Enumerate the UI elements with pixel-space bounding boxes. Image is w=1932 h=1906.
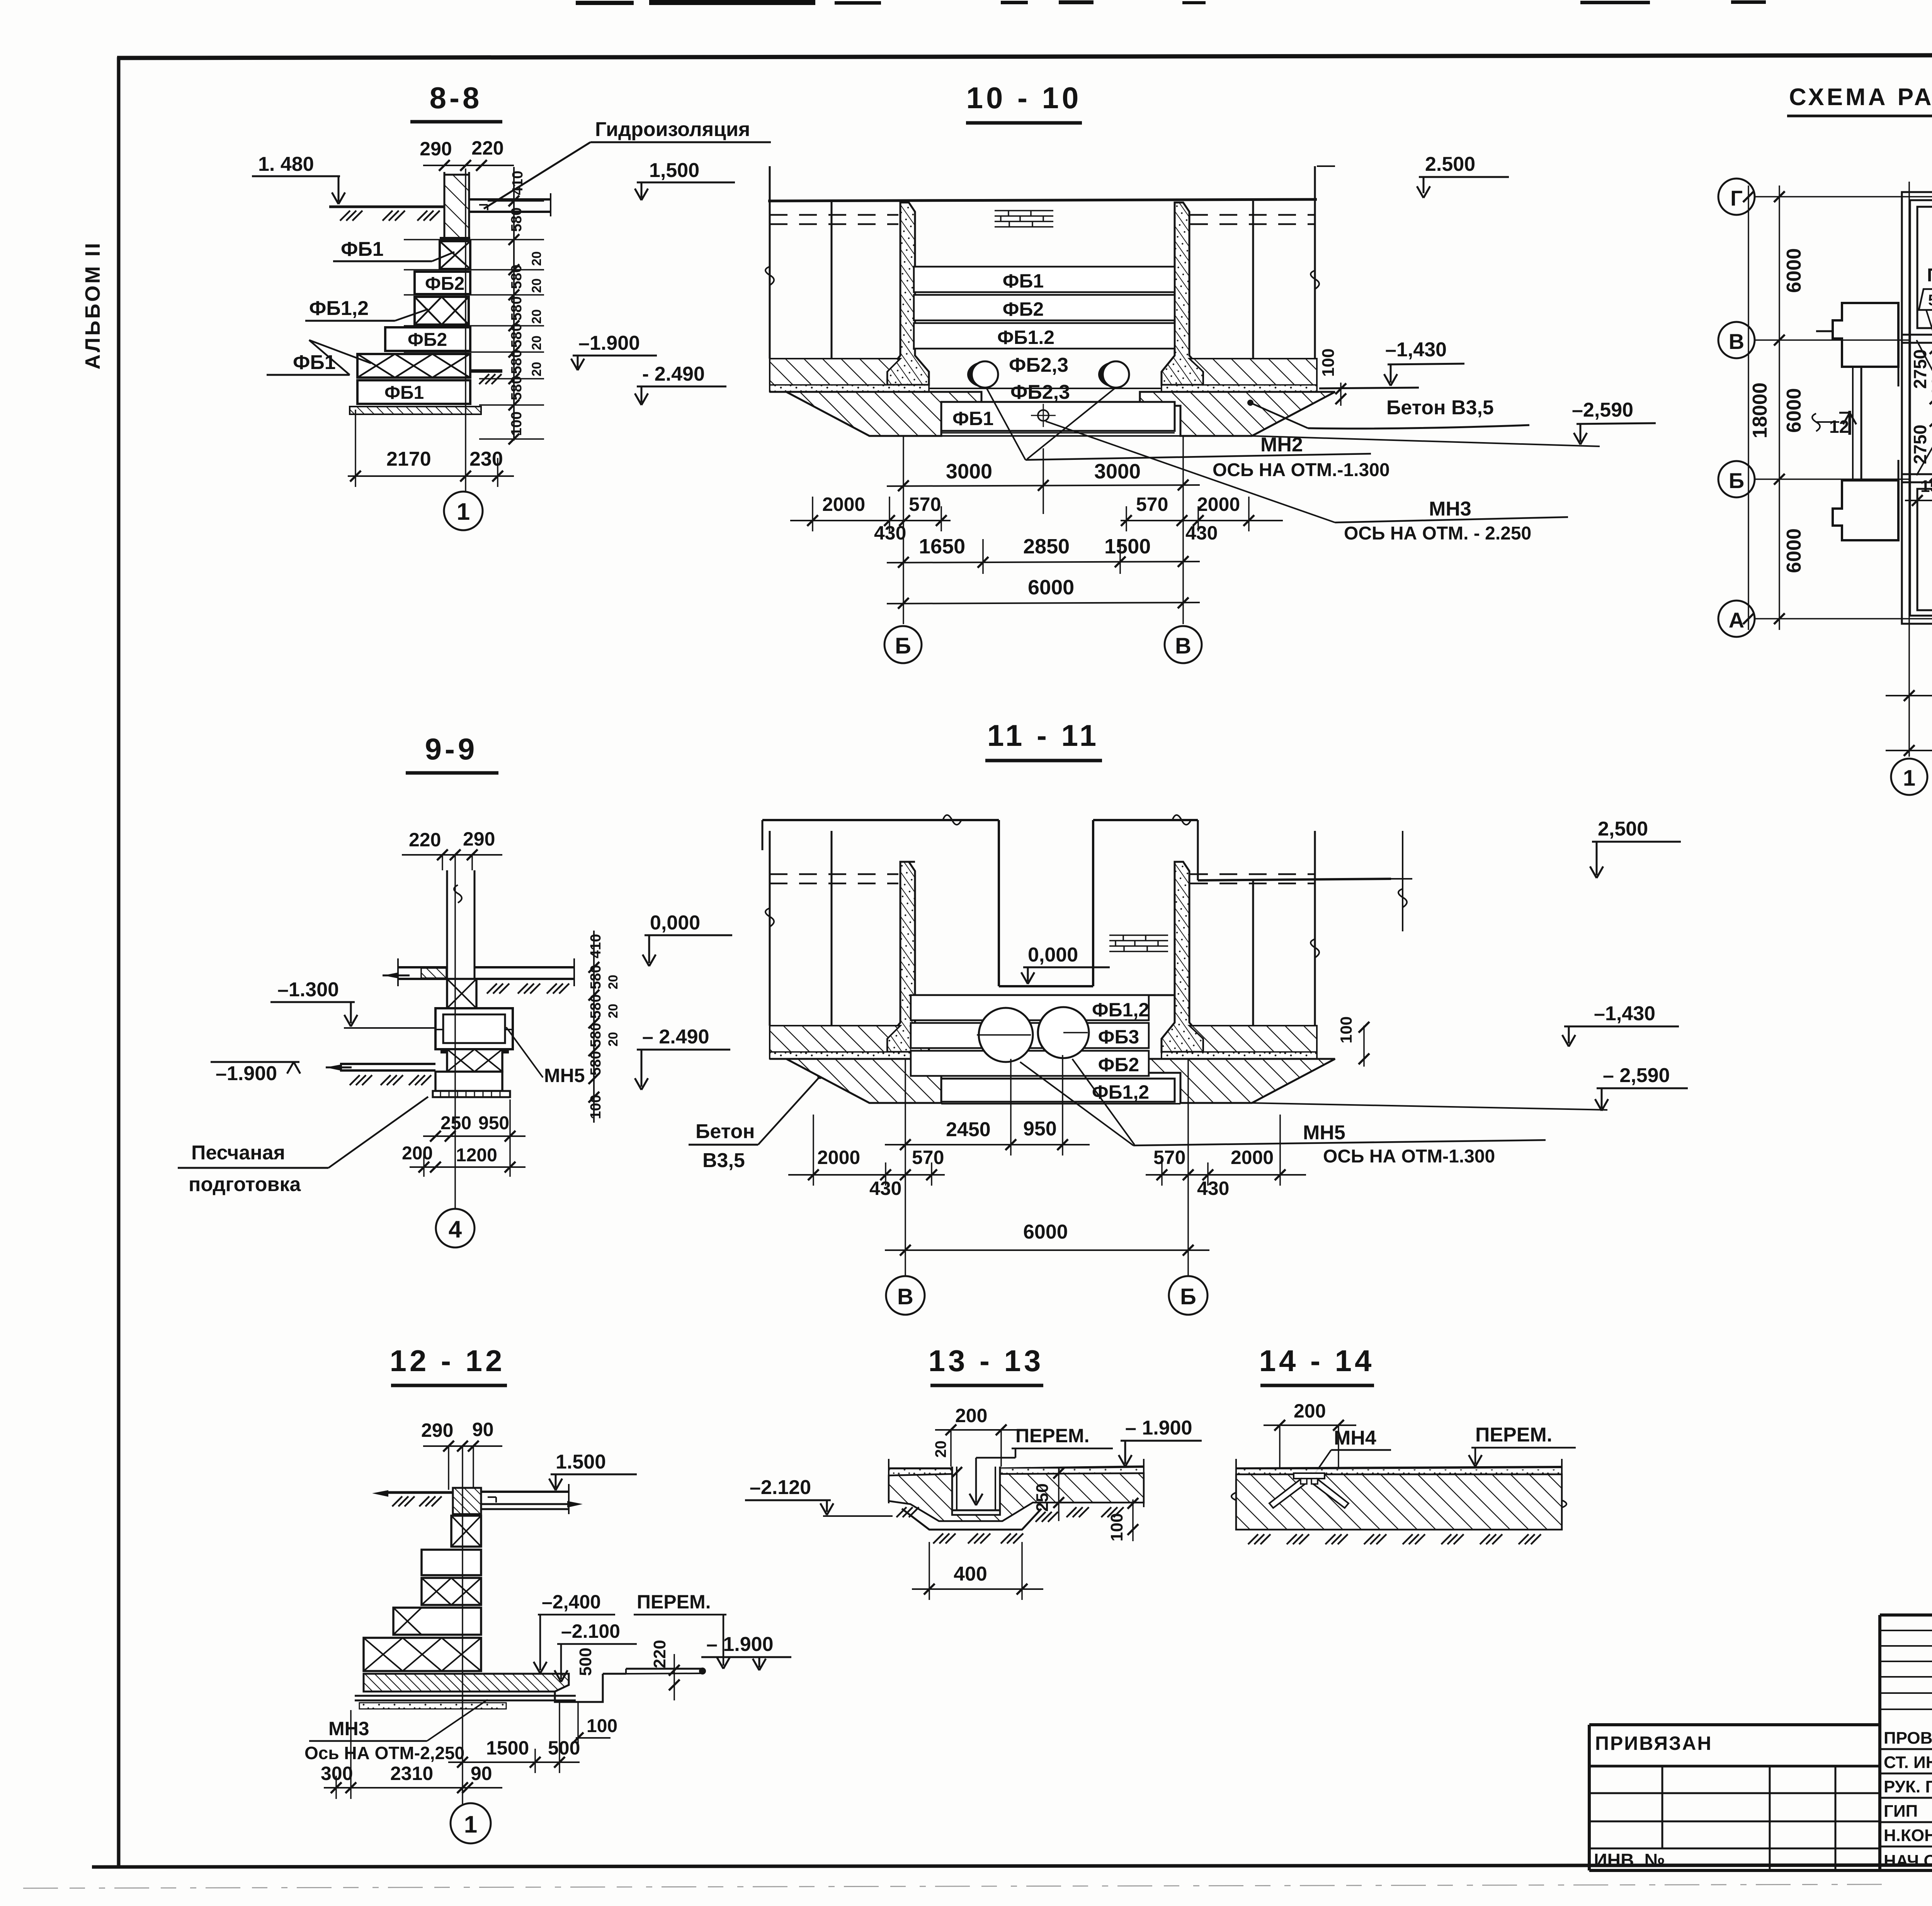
right floor slab xyxy=(474,966,574,968)
wall break mark right xyxy=(1311,271,1319,289)
axis extension lines xyxy=(903,437,904,624)
axis extensions 11-11 xyxy=(905,1059,906,1276)
row FB2,3 upper xyxy=(929,388,1162,389)
right foundation trapezoid xyxy=(1140,392,1335,436)
svg-text:Г: Г xyxy=(1730,186,1743,210)
wall column xyxy=(446,870,448,979)
svg-text:100: 100 xyxy=(1319,349,1338,377)
svg-text:580: 580 xyxy=(588,1023,604,1047)
right outer wall edge xyxy=(1314,166,1316,359)
svg-text:2,500: 2,500 xyxy=(1598,818,1648,840)
svg-text:Н.КОНТР.: Н.КОНТР. xyxy=(1884,1826,1932,1845)
axis circle 1 (12-12) xyxy=(451,1803,491,1843)
leader from Гидроизоляция to wall xyxy=(484,142,590,209)
axis column lines xyxy=(1909,182,1932,757)
left retaining structure lower xyxy=(1833,480,1898,540)
axis circle B 11-11 xyxy=(1169,1276,1207,1315)
wall block hatched xyxy=(453,1488,481,1514)
block FB1,2 row3 (X) xyxy=(415,297,469,325)
right ground band 11-11 xyxy=(1162,1026,1317,1058)
svg-text:ФБ1,2: ФБ1,2 xyxy=(1092,1081,1149,1103)
X blocks row under collar xyxy=(447,1049,502,1072)
svg-text:–1,430: –1,430 xyxy=(1385,339,1447,361)
svg-text:200: 200 xyxy=(955,1405,987,1426)
section mark 12 left xyxy=(1849,411,1851,435)
dashed slab joint left xyxy=(770,214,898,216)
svg-text:ФБ2: ФБ2 xyxy=(1003,298,1044,320)
svg-text:–1.900: –1.900 xyxy=(216,1062,277,1085)
left outer wall edge xyxy=(769,166,771,359)
svg-text:–2,590: –2,590 xyxy=(1572,399,1633,421)
svg-text:2310: 2310 xyxy=(390,1763,433,1784)
svg-text:– 1.900: – 1.900 xyxy=(706,1633,774,1656)
interior wall row V xyxy=(1902,334,1932,336)
canal taper from pit xyxy=(1917,340,1932,399)
thin lines below slab xyxy=(355,1695,576,1697)
axis circle A xyxy=(1718,601,1755,637)
left foundation trapezoid xyxy=(770,392,981,436)
svg-text:20: 20 xyxy=(606,1032,621,1047)
svg-text:100: 100 xyxy=(588,1095,604,1119)
small ground mark right of axis xyxy=(470,369,502,373)
top panel 1 xyxy=(1917,207,1932,328)
svg-text:1: 1 xyxy=(464,1811,477,1838)
svg-text:ОСЬ НА ОТМ.-1.300: ОСЬ НА ОТМ.-1.300 xyxy=(1213,460,1390,480)
left wall inner vertical xyxy=(831,201,833,359)
axis circle G xyxy=(1718,179,1755,215)
vertical dim chain right 9-9 xyxy=(593,931,595,1123)
svg-text:14 - 14: 14 - 14 xyxy=(1259,1344,1375,1378)
svg-text:ФБ1,2: ФБ1,2 xyxy=(309,297,369,320)
svg-text:90: 90 xyxy=(471,1763,492,1784)
wall column hatched xyxy=(444,175,469,240)
svg-text:ФБ2,3: ФБ2,3 xyxy=(1009,354,1068,376)
svg-text:Гидроизоляция: Гидроизоляция xyxy=(595,118,750,141)
svg-text:ФБ1: ФБ1 xyxy=(952,408,993,429)
svg-text:950: 950 xyxy=(478,1113,509,1133)
title block outer border xyxy=(1589,1615,1932,1870)
excavation deeper outline xyxy=(902,1509,1041,1530)
left outer wall verticals xyxy=(769,831,771,1026)
svg-text:СТ. ИНЖ: СТ. ИНЖ xyxy=(1884,1753,1932,1772)
svg-text:ПЕРЕМ.: ПЕРЕМ. xyxy=(1475,1424,1552,1446)
brick symbol 11-11 xyxy=(1109,935,1168,951)
sand preparation strip xyxy=(350,407,481,414)
svg-text:90: 90 xyxy=(472,1419,494,1440)
svg-text:0,000: 0,000 xyxy=(1028,944,1078,966)
svg-text:ОСЬ НА ОТМ. - 2.250: ОСЬ НА ОТМ. - 2.250 xyxy=(1344,523,1531,544)
X block r3 xyxy=(422,1578,481,1605)
ground surface right segment xyxy=(1000,1467,1144,1469)
svg-text:430: 430 xyxy=(1197,1178,1229,1199)
axis circle B(Б) xyxy=(884,626,922,663)
svg-text:290: 290 xyxy=(421,1419,453,1441)
pit floor line xyxy=(915,994,1175,996)
svg-text:ФБ1: ФБ1 xyxy=(341,238,384,260)
svg-text:6000: 6000 xyxy=(1028,576,1074,599)
svg-text:580: 580 xyxy=(509,350,525,374)
svg-text:2000: 2000 xyxy=(1197,494,1240,515)
svg-text:570: 570 xyxy=(1136,494,1168,515)
svg-text:ФБ3: ФБ3 xyxy=(1098,1026,1139,1048)
axis circle V 11-11 xyxy=(886,1276,925,1315)
svg-text:Приямок: Приямок xyxy=(1927,265,1932,286)
block r4 X left xyxy=(393,1608,481,1635)
bottom panel 1 xyxy=(1917,489,1932,610)
interior wall row B xyxy=(1902,473,1932,475)
right step detail xyxy=(555,1674,603,1702)
svg-text:290: 290 xyxy=(420,138,452,160)
svg-text:ФБ2: ФБ2 xyxy=(408,330,447,350)
svg-text:20: 20 xyxy=(529,335,544,350)
axis circle B xyxy=(1718,461,1755,497)
svg-text:А: А xyxy=(1729,608,1744,632)
MN4 anchor symbol xyxy=(1269,1473,1349,1508)
svg-text:500: 500 xyxy=(548,1737,580,1759)
svg-text:10 - 10: 10 - 10 xyxy=(966,81,1082,115)
svg-text:410: 410 xyxy=(588,934,604,958)
svg-text:580: 580 xyxy=(588,1051,604,1076)
svg-text:2850: 2850 xyxy=(1023,535,1070,558)
svg-text:ГИП: ГИП xyxy=(1884,1802,1918,1821)
bottom scan smudge xyxy=(23,1884,1882,1888)
block FB2 row4 xyxy=(385,327,470,351)
svg-text:МН3: МН3 xyxy=(1429,498,1471,520)
svg-text:20: 20 xyxy=(932,1441,949,1458)
hatched ground 13-13 xyxy=(889,1473,1144,1521)
block FB1 bottom xyxy=(357,380,470,404)
block FB1 top (X) xyxy=(440,241,470,269)
svg-text:570: 570 xyxy=(912,1147,944,1168)
ground line left of wall xyxy=(329,206,444,208)
svg-text:ОСЬ НА ОТМ-1.300: ОСЬ НА ОТМ-1.300 xyxy=(1323,1146,1495,1167)
svg-text:Бетон: Бетон xyxy=(696,1120,755,1143)
floor slab right of wall xyxy=(469,198,551,201)
right wall verticals xyxy=(1252,880,1254,1026)
ceiling slab line xyxy=(768,199,1317,201)
svg-text:1650: 1650 xyxy=(919,535,965,558)
MN3 center point xyxy=(1038,410,1049,421)
ground surface 14-14 xyxy=(1236,1467,1562,1469)
svg-text:- 2.490: - 2.490 xyxy=(642,363,705,385)
svg-text:Песчаная: Песчаная xyxy=(191,1142,285,1164)
top cut line left xyxy=(762,819,999,821)
block FB2 row2 xyxy=(415,272,470,294)
block r2 xyxy=(422,1550,481,1575)
svg-text:ФБ1.2: ФБ1.2 xyxy=(997,327,1054,348)
svg-text:2000: 2000 xyxy=(822,494,865,515)
building outer wall xyxy=(1902,192,1932,624)
right ground band hatched xyxy=(1162,359,1317,391)
left thin wall panel xyxy=(887,203,929,385)
svg-text:ПРИВЯЗАН: ПРИВЯЗАН xyxy=(1595,1732,1713,1754)
svg-text:СХЕМА РАСПОЛОЖЕНИЯ КАНАЛА И: СХЕМА РАСПОЛОЖЕНИЯ КАНАЛА И ПРИЯМКА. xyxy=(1789,84,1932,111)
svg-text:МН5: МН5 xyxy=(1303,1121,1345,1144)
wall break mark left xyxy=(765,267,774,285)
block row5 X wide xyxy=(357,354,470,378)
svg-text:20: 20 xyxy=(529,309,544,324)
svg-text:580: 580 xyxy=(509,323,525,348)
pipe MN2 left xyxy=(972,361,998,388)
svg-text:430: 430 xyxy=(1185,522,1218,544)
svg-text:2750: 2750 xyxy=(1910,349,1930,389)
svg-text:220: 220 xyxy=(650,1640,669,1668)
block stack rect xyxy=(914,267,1175,292)
left lower table columns xyxy=(1662,1766,1835,1870)
svg-text:250: 250 xyxy=(1033,1483,1052,1511)
svg-text:18000: 18000 xyxy=(1749,383,1771,439)
svg-text:ПРОВЕР.: ПРОВЕР. xyxy=(1884,1729,1932,1748)
dashed joint right xyxy=(1190,873,1315,875)
svg-text:2000: 2000 xyxy=(817,1147,860,1168)
excavation bottom 11-11 xyxy=(941,1103,1180,1104)
wall break mark xyxy=(1812,414,1820,431)
svg-text:В: В xyxy=(1729,329,1744,354)
svg-text:20: 20 xyxy=(529,278,544,293)
svg-text:Б: Б xyxy=(895,633,911,659)
svg-text:20: 20 xyxy=(529,362,544,376)
svg-text:АЛЬБОМ II: АЛЬБОМ II xyxy=(81,241,104,369)
svg-text:1: 1 xyxy=(1903,766,1915,791)
dashed slab joint right xyxy=(1190,214,1315,216)
svg-text:9-9: 9-9 xyxy=(425,732,478,766)
axis line 12-12 xyxy=(462,1446,463,1804)
svg-text:400: 400 xyxy=(954,1563,987,1585)
svg-text:220: 220 xyxy=(471,137,503,159)
axis line 9-9 xyxy=(454,855,456,1209)
svg-text:НАЧ.ОТД: НАЧ.ОТД xyxy=(1884,1852,1932,1870)
svg-text:580: 580 xyxy=(588,994,604,1019)
scanner edge marks top xyxy=(576,0,1932,21)
svg-text:МН4: МН4 xyxy=(1334,1427,1376,1449)
svg-text:–2,400: –2,400 xyxy=(542,1591,601,1613)
block stack 11-11 xyxy=(911,995,1149,1020)
right wall inner vertical xyxy=(1252,201,1254,359)
left ground band hatched xyxy=(770,359,929,391)
svg-text:1. 480: 1. 480 xyxy=(258,153,314,175)
svg-text:1.500: 1.500 xyxy=(556,1451,606,1473)
svg-text:200: 200 xyxy=(1294,1400,1326,1422)
pit 0.000 walls xyxy=(998,820,1000,986)
svg-text:500: 500 xyxy=(576,1647,595,1676)
svg-text:2.500: 2.500 xyxy=(1425,153,1475,175)
svg-text:–2.100: –2.100 xyxy=(561,1620,620,1642)
svg-text:6000: 6000 xyxy=(1783,528,1805,573)
svg-text:290: 290 xyxy=(463,828,495,850)
svg-text:570: 570 xyxy=(909,494,941,515)
svg-text:20: 20 xyxy=(606,975,621,989)
left ground band 11-11 xyxy=(770,1026,929,1058)
left privyazan strip xyxy=(1589,1765,1880,1768)
X row r5 xyxy=(364,1638,481,1671)
svg-text:6000: 6000 xyxy=(1023,1221,1068,1243)
vertical dim chain right xyxy=(513,167,515,441)
svg-text:570: 570 xyxy=(1153,1147,1185,1168)
svg-text:–1.900: –1.900 xyxy=(578,332,640,354)
svg-text:580: 580 xyxy=(509,376,525,400)
axis circle V(В) xyxy=(1165,626,1202,663)
svg-text:–2.120: –2.120 xyxy=(750,1476,811,1499)
svg-text:В: В xyxy=(897,1284,913,1309)
axis circle 1 xyxy=(444,492,483,530)
svg-text:подготовка: подготовка xyxy=(189,1173,301,1196)
svg-text:4: 4 xyxy=(449,1216,462,1243)
step to right ceiling xyxy=(1197,820,1199,880)
svg-text:– 2.490: – 2.490 xyxy=(642,1026,709,1048)
svg-text:ИНВ. №: ИНВ. № xyxy=(1594,1850,1665,1871)
MN5 collar block xyxy=(435,1008,513,1049)
svg-text:950: 950 xyxy=(1023,1118,1057,1140)
X block r1 xyxy=(451,1516,481,1547)
axis row lines xyxy=(1754,197,1932,619)
svg-text:Бетон В3,5: Бетон В3,5 xyxy=(1386,397,1494,419)
svg-text:580: 580 xyxy=(509,208,525,232)
svg-text:ФБ2,3: ФБ2,3 xyxy=(1010,381,1070,403)
svg-text:580: 580 xyxy=(509,265,525,289)
svg-text:2450: 2450 xyxy=(946,1118,991,1141)
svg-text:В3,5: В3,5 xyxy=(702,1149,745,1172)
brick symbol xyxy=(995,211,1053,227)
axis circle V xyxy=(1718,322,1755,358)
left lower slab xyxy=(340,1063,435,1065)
svg-text:20: 20 xyxy=(606,1004,621,1018)
svg-text:В: В xyxy=(1175,633,1191,659)
svg-text:12 - 12: 12 - 12 xyxy=(390,1344,505,1378)
svg-text:0,000: 0,000 xyxy=(650,912,700,934)
svg-text:100: 100 xyxy=(587,1716,617,1736)
sand plate xyxy=(433,1091,510,1097)
svg-text:3000: 3000 xyxy=(946,460,992,483)
svg-text:8-8: 8-8 xyxy=(430,81,483,115)
svg-text:ПЕРЕМ.: ПЕРЕМ. xyxy=(637,1591,711,1613)
X block under wall xyxy=(447,979,476,1008)
svg-text:–1,430: –1,430 xyxy=(1594,1002,1655,1025)
svg-text:6000: 6000 xyxy=(1783,248,1805,293)
leader to pit xyxy=(1926,310,1932,399)
right base stipple strip xyxy=(1162,385,1317,392)
axis line xyxy=(465,168,466,491)
svg-text:ФБ1: ФБ1 xyxy=(1003,270,1044,292)
excavation bottom line xyxy=(941,435,1180,437)
ground line left xyxy=(386,1491,453,1494)
svg-text:100: 100 xyxy=(509,412,525,436)
left lower table rows xyxy=(1589,1793,1880,1848)
svg-text:2170: 2170 xyxy=(386,448,431,470)
svg-text:– 2,590: – 2,590 xyxy=(1603,1064,1670,1087)
svg-text:ФБ1: ФБ1 xyxy=(384,383,424,403)
axis circle 4 xyxy=(436,1209,474,1247)
svg-text:1,500: 1,500 xyxy=(649,159,699,182)
svg-text:13 - 13: 13 - 13 xyxy=(929,1344,1044,1378)
connecting wall line xyxy=(1861,367,1862,480)
svg-text:ФБ2: ФБ2 xyxy=(1098,1054,1139,1076)
svg-text:Б: Б xyxy=(1180,1284,1196,1309)
right thin wall panel xyxy=(1162,203,1203,385)
pipe MN2 right xyxy=(1103,361,1129,388)
svg-text:250: 250 xyxy=(440,1113,471,1133)
svg-text:100: 100 xyxy=(1107,1513,1126,1541)
svg-text:580: 580 xyxy=(588,965,604,989)
svg-text:РУК. ГР: РУК. ГР xyxy=(1884,1777,1932,1796)
top cut line mid-right xyxy=(1093,819,1198,821)
svg-text:–1.300: –1.300 xyxy=(277,979,339,1001)
ground surface left segment xyxy=(889,1467,952,1470)
svg-text:410: 410 xyxy=(510,171,526,195)
svg-text:ФБ2: ФБ2 xyxy=(425,274,464,294)
svg-text:Б: Б xyxy=(1729,468,1744,493)
svg-text:– 1.900: – 1.900 xyxy=(1125,1417,1192,1439)
svg-text:100: 100 xyxy=(1337,1016,1355,1043)
svg-text:220: 220 xyxy=(409,829,441,851)
left base stipple strip xyxy=(770,385,929,392)
svg-text:500: 500 xyxy=(1928,376,1932,406)
svg-text:12: 12 xyxy=(1829,417,1849,437)
svg-text:МН2: МН2 xyxy=(1260,434,1303,456)
signature rows xyxy=(1880,1749,1932,1846)
channel walls xyxy=(951,1467,953,1510)
lower column xyxy=(435,1072,502,1091)
svg-text:200: 200 xyxy=(402,1143,433,1164)
svg-text:2750: 2750 xyxy=(1910,425,1930,464)
hatched base slab xyxy=(364,1674,569,1692)
svg-text:1500: 1500 xyxy=(1104,535,1151,558)
left thin wall panel 11-11 xyxy=(887,862,929,1052)
svg-text:500х500х500(h): 500х500х500(h) xyxy=(1928,292,1932,309)
svg-text:1200: 1200 xyxy=(456,1145,497,1166)
left retaining structure upper xyxy=(1833,303,1898,367)
svg-text:МН5: МН5 xyxy=(544,1065,585,1086)
svg-text:ФБ1,2: ФБ1,2 xyxy=(1092,999,1149,1021)
hatched ground 14-14 xyxy=(1236,1474,1562,1530)
bottom block FB1 xyxy=(941,402,1175,431)
svg-text:3000: 3000 xyxy=(1094,460,1141,483)
left upper slab stub xyxy=(398,966,447,968)
signature table thin upper rows xyxy=(1880,1630,1932,1709)
svg-text:ФБ1: ФБ1 xyxy=(293,351,336,374)
svg-text:6000: 6000 xyxy=(1783,388,1805,433)
floor slab right xyxy=(481,1491,569,1493)
axis circle 1 xyxy=(1891,759,1927,795)
svg-text:ПЕРЕМ.: ПЕРЕМ. xyxy=(1015,1425,1090,1447)
right thin wall panel 11-11 xyxy=(1162,862,1203,1052)
left dim chain verticals xyxy=(1779,185,1780,630)
svg-text:Ось НА ОТМ-2,250: Ось НА ОТМ-2,250 xyxy=(304,1743,464,1763)
dashed joint left xyxy=(770,873,898,875)
svg-text:580: 580 xyxy=(509,296,525,321)
svg-text:1: 1 xyxy=(457,499,470,525)
svg-text:20: 20 xyxy=(529,251,544,266)
pipes 11-11 xyxy=(979,1008,1033,1062)
svg-text:11 - 11: 11 - 11 xyxy=(987,718,1099,752)
svg-text:1500: 1500 xyxy=(486,1737,529,1759)
svg-text:1500: 1500 xyxy=(1920,477,1932,496)
svg-text:2000: 2000 xyxy=(1231,1147,1274,1168)
svg-text:МН3: МН3 xyxy=(328,1718,369,1739)
